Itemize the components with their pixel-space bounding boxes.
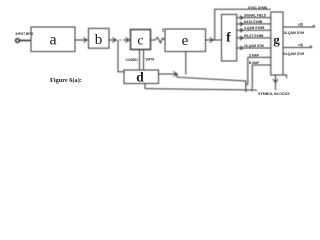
svg-text:4-QAM SYMB: 4-QAM SYMB <box>244 26 265 30</box>
box d <box>124 70 159 84</box>
wire input to a <box>20 40 32 42</box>
box f <box>222 14 237 61</box>
box e <box>165 29 206 52</box>
box c <box>131 30 151 50</box>
wire b to c <box>109 38 130 43</box>
wire f to g 3 <box>237 28 271 32</box>
svg-text:16-QAM SYM: 16-QAM SYM <box>244 44 264 48</box>
box a <box>31 27 75 52</box>
d output wire right <box>159 72 248 93</box>
svg-text:a: a <box>49 32 56 49</box>
svg-text:DATA SYMB: DATA SYMB <box>244 20 263 24</box>
wire f to g 5 <box>237 46 271 50</box>
arrow a to b <box>75 38 87 43</box>
wire f to g 2 <box>237 22 271 26</box>
wire f to g 4 <box>237 36 271 40</box>
output g right 1 <box>284 25 316 27</box>
svg-text:CODED: CODED <box>126 58 139 62</box>
svg-text:S MAP: S MAP <box>249 53 260 57</box>
svg-text:PILOT SYMB: PILOT SYMB <box>244 34 264 38</box>
svg-text:B MAP: B MAP <box>249 61 260 65</box>
output g right 2 <box>284 46 313 48</box>
svg-text:SIGNAL FIELD: SIGNAL FIELD <box>244 14 267 18</box>
svg-text:b: b <box>95 32 103 48</box>
svg-text:64-QAM SYM: 64-QAM SYM <box>283 52 304 56</box>
riser to g input 2 <box>252 65 270 92</box>
svg-text:d: d <box>136 70 144 85</box>
g bottom right tick <box>283 75 287 78</box>
svg-text:u(t): u(t) <box>298 23 303 27</box>
e bottom wire down <box>185 52 187 75</box>
svg-text:SYNC SYMB: SYNC SYMB <box>248 6 268 10</box>
riser to g input 1 <box>248 57 271 84</box>
svg-text:e: e <box>182 33 189 49</box>
bottom feedback line <box>145 89 257 91</box>
junction branch down to d <box>118 40 124 72</box>
svg-text:c: c <box>137 34 143 49</box>
svg-text:v(t): v(t) <box>298 43 303 47</box>
svg-text:DATA: DATA <box>146 58 155 62</box>
box b <box>89 28 110 48</box>
input terminal <box>16 39 20 43</box>
wire f to g 1 <box>237 16 271 20</box>
svg-text:g: g <box>273 32 280 47</box>
svg-text:INPUT BITS: INPUT BITS <box>16 32 34 36</box>
zigzag c to e <box>151 28 166 43</box>
svg-text:f: f <box>226 31 231 46</box>
arrow e to f <box>206 38 222 43</box>
box g <box>271 12 283 75</box>
d bottom drop <box>144 84 146 89</box>
output g bottom arrow <box>273 75 278 90</box>
svg-text:Figure 6(a):: Figure 6(a): <box>50 77 82 84</box>
svg-text:16-QAM SYM: 16-QAM SYM <box>283 31 304 35</box>
c bottom pair wires to d <box>140 50 144 71</box>
svg-text:SYMBOL BLOCKS: SYMBOL BLOCKS <box>258 92 290 96</box>
wire e top bypass to g <box>215 9 271 40</box>
